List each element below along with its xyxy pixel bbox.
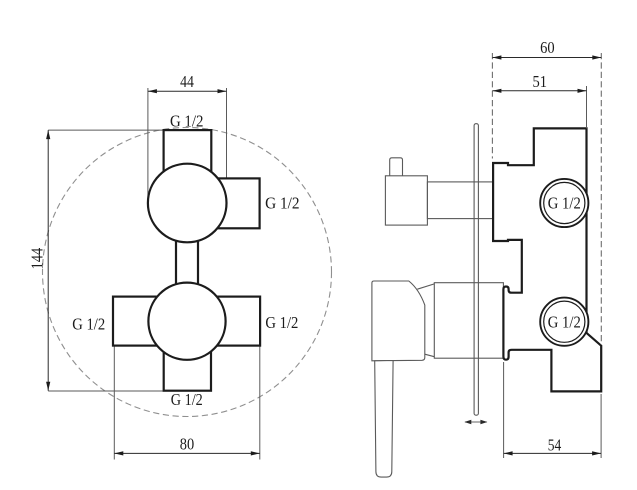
handle barrel xyxy=(434,283,503,359)
G 1/2 circle top inner xyxy=(544,182,585,223)
svg-text:54: 54 xyxy=(548,436,562,455)
svg-text:144: 144 xyxy=(28,247,47,269)
dim line 144 xyxy=(47,130,49,391)
G 1/2 circle top outer xyxy=(540,179,588,227)
svg-text:G 1/2: G 1/2 xyxy=(265,313,298,332)
leader bottom 144 xyxy=(48,390,164,392)
lever bar xyxy=(375,361,393,478)
ext line 51 right xyxy=(586,86,588,128)
extension line 80 right xyxy=(259,346,261,460)
wall plate (edge-on) xyxy=(474,124,478,416)
port top-right xyxy=(212,178,260,228)
dim line 54 xyxy=(504,452,601,454)
ext line 54 left xyxy=(503,362,505,458)
dashed ext line 60 right xyxy=(600,53,602,345)
lever handle body xyxy=(372,281,425,361)
extension line 80 left xyxy=(113,346,115,460)
extension line 44 right xyxy=(226,88,228,178)
diverter knob small top xyxy=(390,158,403,176)
G 1/2 circle bottom outer xyxy=(540,298,588,346)
svg-text:80: 80 xyxy=(180,434,194,453)
dim line 51 xyxy=(492,90,586,92)
svg-text:G 1/2: G 1/2 xyxy=(548,194,581,213)
adjustment double arrow xyxy=(465,421,487,423)
dashed escutcheon circle xyxy=(43,128,332,417)
knob circle bottom xyxy=(148,283,225,360)
G 1/2 circle bottom inner xyxy=(544,301,585,342)
neck between knobs xyxy=(176,210,198,315)
extension line 44 left xyxy=(147,88,149,203)
diverter knob body xyxy=(385,176,427,225)
svg-text:G 1/2: G 1/2 xyxy=(265,194,300,213)
dim line 44 xyxy=(148,90,227,92)
svg-text:60: 60 xyxy=(540,38,555,57)
diverter stem xyxy=(427,182,493,219)
ext line 54 right xyxy=(600,394,602,458)
body outline xyxy=(493,128,601,391)
svg-text:G 1/2: G 1/2 xyxy=(171,390,203,409)
leader top 144 xyxy=(48,129,163,131)
dim line 80 xyxy=(114,452,259,454)
svg-text:44: 44 xyxy=(180,72,194,91)
handle taper xyxy=(417,284,434,357)
svg-text:G 1/2: G 1/2 xyxy=(548,312,581,331)
port bottom-left xyxy=(113,297,161,346)
svg-text:G 1/2: G 1/2 xyxy=(170,111,204,130)
port bottom xyxy=(164,330,211,391)
knob circle top xyxy=(148,164,227,243)
svg-text:G 1/2: G 1/2 xyxy=(72,315,105,334)
dim line 60 xyxy=(492,57,601,59)
port top xyxy=(164,130,212,192)
dashed ext line 60 left xyxy=(491,53,493,159)
port bottom-right xyxy=(212,297,260,346)
svg-text:51: 51 xyxy=(532,72,547,91)
